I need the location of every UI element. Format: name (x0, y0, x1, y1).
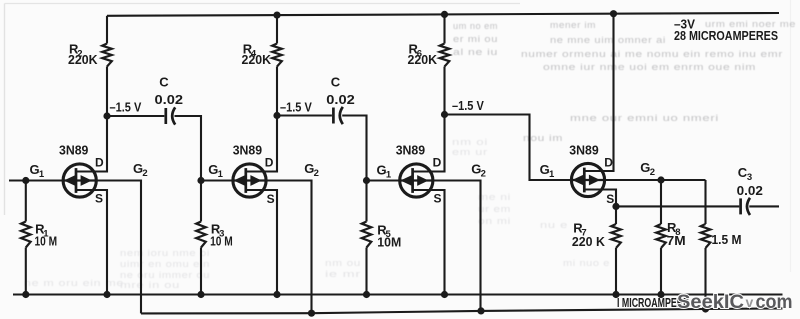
svg-text:al ne iu: al ne iu (453, 47, 498, 57)
svg-text:mener im: mener im (550, 20, 596, 30)
svg-text:v: v (746, 294, 754, 310)
svg-text:em ur: em ur (452, 147, 488, 157)
svg-text:ne m oru ein me: ne m oru ein me (24, 278, 124, 288)
svg-text:D: D (433, 155, 442, 169)
svg-text:mne our emni uo nmeri: mne our emni uo nmeri (570, 113, 719, 123)
svg-text:com: com (756, 291, 793, 313)
svg-text:1: 1 (386, 169, 392, 180)
svg-text:3N89: 3N89 (569, 142, 598, 157)
svg-text:SeekIC: SeekIC (677, 291, 744, 313)
svg-text:S: S (606, 192, 614, 206)
svg-text:um no em: um no em (453, 21, 498, 31)
svg-text:3: 3 (747, 172, 752, 183)
svg-text:numer ormenu ai me nomu ein re: numer ormenu ai me nomu ein remo inu emr (521, 49, 783, 59)
svg-text:mi nuo e: mi nuo e (563, 258, 610, 268)
svg-text:nem ioru nme oi: nem ioru nme oi (120, 248, 210, 258)
svg-text:2: 2 (481, 168, 486, 179)
svg-text:D: D (95, 155, 104, 169)
svg-text:2: 2 (314, 168, 319, 179)
svg-text:1.5 M: 1.5 M (712, 233, 742, 247)
svg-text:0.02: 0.02 (155, 92, 184, 107)
svg-text:uimr en omu ein: uimr en omu ein (120, 259, 210, 269)
svg-text:ur em: ur em (478, 204, 511, 214)
svg-text:S: S (434, 192, 442, 206)
svg-text:10 M: 10 M (210, 235, 233, 249)
svg-text:C: C (331, 75, 341, 90)
svg-text:220K: 220K (68, 53, 98, 67)
svg-text:ne oru immer ou: ne oru immer ou (120, 270, 210, 280)
svg-text:0.02: 0.02 (737, 183, 763, 198)
svg-text:1: 1 (218, 169, 224, 180)
svg-text:7M: 7M (667, 234, 686, 248)
svg-text:mre in ou: mre in ou (120, 280, 180, 290)
svg-text:3N89: 3N89 (233, 142, 262, 157)
svg-text:220 K: 220 K (572, 235, 605, 249)
svg-text:–1.5 V: –1.5 V (452, 98, 484, 113)
svg-text:1: 1 (549, 169, 555, 180)
svg-text:2: 2 (142, 168, 147, 179)
svg-text:28 MICROAMPERES: 28 MICROAMPERES (674, 28, 778, 43)
svg-text:C: C (159, 75, 169, 90)
svg-text:nm ou: nm ou (325, 258, 361, 268)
svg-text:ne mne uim omner ai: ne mne uim omner ai (550, 35, 666, 45)
svg-text:me ni: me ni (478, 192, 511, 202)
svg-text:3N89: 3N89 (59, 142, 88, 157)
svg-text:10 M: 10 M (35, 235, 58, 249)
svg-text:ie mr: ie mr (325, 269, 361, 279)
svg-text:10M: 10M (377, 235, 401, 249)
svg-text:S: S (267, 192, 275, 206)
svg-text:3N89: 3N89 (396, 142, 425, 157)
svg-text:–1.5 V: –1.5 V (110, 99, 142, 114)
svg-text:0.02: 0.02 (326, 92, 355, 107)
svg-text:nm oi: nm oi (452, 137, 488, 147)
svg-text:220K: 220K (242, 53, 272, 67)
svg-text:1: 1 (39, 169, 45, 180)
svg-text:nu e: nu e (540, 220, 568, 230)
svg-text:D: D (265, 155, 274, 169)
svg-text:on mi: on mi (478, 216, 511, 226)
svg-text:D: D (604, 155, 613, 169)
svg-text:er mi ou: er mi ou (453, 34, 498, 44)
svg-text:2: 2 (650, 167, 655, 178)
svg-text:omne iur nme uoi em enrm oue n: omne iur nme uoi em enrm oue nim (543, 62, 756, 72)
svg-text:S: S (95, 192, 103, 206)
svg-text:220K: 220K (408, 53, 438, 67)
svg-text:–1.5 V: –1.5 V (280, 99, 312, 114)
